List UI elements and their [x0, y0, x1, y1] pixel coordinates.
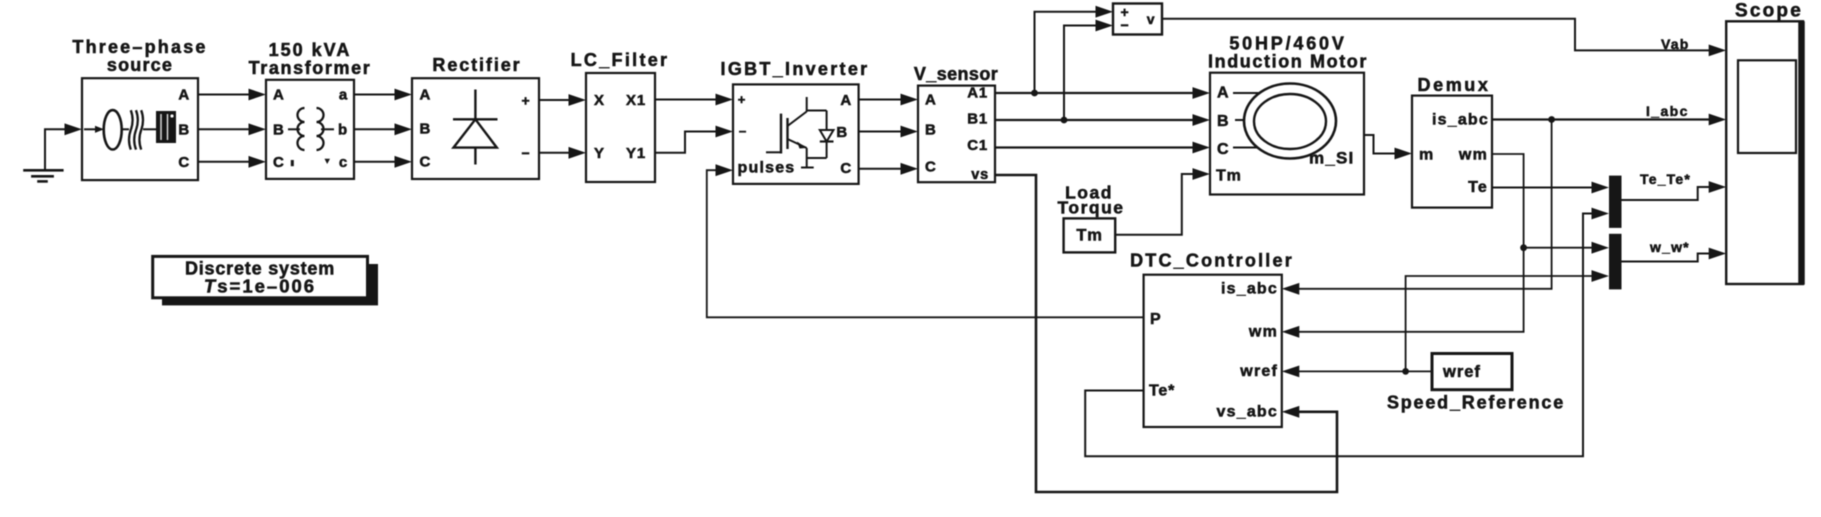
svg-text:Rectifier: Rectifier: [432, 55, 521, 75]
transformer winding dot mark: [291, 160, 294, 166]
port label transformer b: [338, 121, 348, 138]
svg-text:−: −: [522, 145, 531, 161]
wire B1 to motor B: [995, 114, 1210, 126]
motor lead A: [1233, 92, 1260, 94]
svg-text:w_w*: w_w*: [1649, 239, 1690, 255]
label voltmeter minus: [1121, 17, 1130, 33]
svg-text:c: c: [339, 154, 348, 171]
scope screen: [1738, 60, 1796, 153]
wire wm branch to mux w: [1524, 242, 1609, 254]
wire rectifier + to LC X: [539, 94, 586, 106]
svg-text:50HP/460V: 50HP/460V: [1229, 34, 1346, 54]
label Te_Te*: [1640, 171, 1691, 187]
svg-text:A: A: [178, 87, 190, 104]
port label transformer a: [339, 87, 348, 104]
port label inverter B: [836, 124, 848, 141]
wire Vab voltmeter to scope: [1162, 19, 1726, 57]
label Scope title: [1735, 1, 1803, 22]
port label V_sensor B: [925, 122, 937, 139]
svg-text:Induction Motor: Induction Motor: [1208, 52, 1368, 72]
wire transformer a to rectifier A: [354, 89, 412, 101]
svg-text:Three–phase: Three–phase: [72, 37, 207, 57]
port label DTC Te*: [1149, 383, 1175, 400]
wire vs to DTC vs_abc: [995, 175, 1337, 492]
svg-text:Torque: Torque: [1057, 198, 1124, 218]
wire rectifier - to LC Y: [539, 147, 586, 159]
svg-text:C: C: [178, 154, 190, 171]
svg-text:Vab: Vab: [1661, 36, 1690, 52]
label Speed_Reference: [1387, 393, 1565, 413]
svg-text:C: C: [840, 160, 852, 177]
wire LC X1 to inverter +: [655, 94, 733, 106]
transformer winding symbol: [288, 108, 334, 150]
source inductor coil: [129, 110, 143, 149]
svg-text:Te*: Te*: [1149, 383, 1175, 400]
port label motor m_SI: [1309, 149, 1354, 168]
wire LC Y1 to inverter -: [655, 126, 733, 153]
AC source ellipse: [104, 110, 122, 149]
port label rectifier plus: [522, 93, 531, 109]
svg-text:Demux: Demux: [1417, 75, 1490, 95]
diode symbol in rectifier: [453, 90, 498, 165]
wire mux2 to scope w_w*: [1622, 248, 1727, 262]
wire source B to transformer B: [198, 123, 266, 135]
svg-text:+: +: [522, 93, 531, 109]
svg-text:Te_Te*: Te_Te*: [1640, 171, 1691, 187]
port label V_sensor A: [925, 92, 937, 109]
port label demux Te: [1468, 179, 1488, 196]
svg-text:B1: B1: [967, 111, 988, 128]
node junction is_abc feedback: [1548, 116, 1555, 123]
svg-text:wref: wref: [1442, 363, 1481, 381]
wire A1 to motor A: [995, 87, 1210, 99]
label Discrete system: [185, 259, 335, 297]
port label DTC wref: [1239, 363, 1278, 380]
block 50HP/460V Induction Motor: [1210, 73, 1364, 195]
svg-text:A: A: [840, 92, 852, 109]
svg-text:X: X: [594, 92, 605, 109]
label voltmeter v: [1147, 11, 1156, 27]
wire source A to transformer A: [198, 89, 266, 101]
wire P to inverter pulses: [707, 164, 1144, 317]
svg-text:A: A: [1217, 85, 1229, 102]
wire inverter C to V_sensor C: [859, 163, 918, 175]
port label motor A: [1217, 85, 1229, 102]
annotation shadow: [162, 264, 378, 305]
svg-text:A1: A1: [967, 85, 988, 102]
svg-text:Scope: Scope: [1735, 1, 1803, 22]
svg-text:X1: X1: [626, 92, 646, 109]
source input port arrow inside: [84, 126, 104, 133]
svg-text:B: B: [1217, 113, 1229, 130]
block 150 kVA Transformer: [266, 80, 354, 179]
wire C1 to motor C: [995, 142, 1210, 154]
port label inverter A: [840, 92, 852, 109]
label Tm: [1076, 227, 1102, 245]
svg-text:C: C: [1217, 141, 1229, 158]
svg-text:source: source: [107, 55, 173, 75]
wire transformer c to rectifier C: [354, 156, 412, 168]
port label inverter minus: [739, 124, 747, 139]
block Scope: [1726, 21, 1803, 284]
port label source B: [178, 121, 190, 138]
svg-text:wref: wref: [1239, 363, 1278, 380]
block V_sensor: [918, 86, 995, 183]
svg-text:b: b: [338, 121, 348, 138]
wire wref branch to mux w*: [1406, 270, 1609, 371]
svg-text:−: −: [1121, 17, 1130, 33]
wire is_abc demux to scope: [1492, 114, 1726, 126]
mux w_w*: [1609, 234, 1622, 290]
port label DTC vs_abc: [1217, 404, 1278, 421]
svg-text:wm: wm: [1458, 147, 1488, 164]
wire mux1 to scope Te_Te*: [1622, 181, 1727, 200]
port label demux wm: [1458, 147, 1488, 164]
wire Te* to mux Te_Te*: [1085, 208, 1609, 457]
svg-text:Speed_Reference: Speed_Reference: [1387, 393, 1565, 413]
wire source C to transformer C: [198, 156, 266, 168]
port label DTC P: [1150, 311, 1161, 328]
port label rectifier C: [420, 153, 432, 170]
svg-text:P: P: [1150, 311, 1161, 328]
label Load Torque: [1057, 183, 1124, 218]
port label demux m: [1419, 147, 1434, 164]
svg-text:B: B: [420, 121, 432, 138]
svg-text:C: C: [273, 154, 285, 171]
wire ground to source input: [45, 123, 82, 170]
wire motor m to demux: [1364, 135, 1412, 159]
svg-text:is_abc: is_abc: [1221, 281, 1278, 298]
port label demux is_abc: [1432, 112, 1489, 129]
svg-text:Te: Te: [1468, 179, 1488, 196]
label Vab: [1661, 36, 1690, 52]
port label rectifier B: [420, 121, 432, 138]
wire inverter B to V_sensor B: [859, 126, 918, 138]
svg-text:Tm: Tm: [1216, 168, 1242, 185]
label wref: [1442, 363, 1481, 381]
wire B1 junction up to voltmeter -: [1064, 20, 1113, 120]
port label inverter plus: [738, 92, 746, 107]
svg-text:vs: vs: [971, 167, 989, 183]
svg-text:150 kVA: 150 kVA: [269, 40, 352, 60]
svg-text:m: m: [1419, 147, 1434, 164]
wire wm demux down: [1282, 154, 1524, 338]
port label transformer c: [339, 154, 348, 171]
svg-text:B: B: [273, 121, 285, 138]
svg-text:Y1: Y1: [626, 145, 646, 162]
label IGBT_Inverter title: [721, 59, 870, 79]
svg-text:IGBT_Inverter: IGBT_Inverter: [721, 59, 870, 79]
port label V_sensor A1: [967, 85, 988, 102]
block Tm load torque: [1064, 218, 1116, 252]
motor lead B: [1235, 119, 1245, 121]
block wref Speed_Reference: [1432, 354, 1512, 390]
port label LC Y: [594, 145, 605, 162]
wire source internal lead 1: [122, 128, 129, 130]
port label rectifier minus: [522, 145, 531, 161]
port label transformer C: [273, 154, 285, 171]
svg-text:v: v: [1147, 11, 1156, 27]
port label V_sensor B1: [967, 111, 988, 128]
IGBT symbol with anti-parallel diode: [766, 97, 834, 168]
port label transformer B: [273, 121, 285, 138]
label Three-phase source title: [72, 37, 207, 75]
ground: [23, 170, 63, 181]
mux Te_Te*: [1609, 176, 1622, 228]
block LC_Filter: [586, 73, 655, 182]
port label V_sensor C: [925, 159, 937, 176]
svg-text:Y: Y: [594, 145, 605, 162]
svg-text:A: A: [925, 92, 937, 109]
svg-text:+: +: [738, 92, 746, 107]
svg-text:a: a: [339, 87, 348, 104]
source impedance box: [156, 111, 176, 143]
svg-text:C: C: [925, 159, 937, 176]
port label motor Tm: [1216, 168, 1242, 185]
label voltmeter plus: [1121, 4, 1130, 20]
svg-text:C1: C1: [967, 137, 988, 154]
node junction B1 voltmeter: [1061, 117, 1068, 124]
port label source C: [178, 154, 190, 171]
svg-text:pulses: pulses: [738, 160, 796, 177]
label V_sensor title: [914, 64, 998, 84]
svg-text:C: C: [420, 153, 432, 170]
port label LC X1: [626, 92, 646, 109]
port label V_sensor C1: [967, 137, 988, 154]
port label transformer A: [273, 87, 285, 104]
label DTC_Controller title: [1130, 251, 1294, 271]
svg-text:B: B: [178, 121, 190, 138]
label LC_Filter title: [571, 50, 670, 70]
label I_abc: [1646, 103, 1689, 119]
block DTC_Controller: [1144, 275, 1282, 427]
wire A1 junction up to voltmeter +: [1035, 6, 1114, 93]
svg-text:Transformer: Transformer: [249, 58, 372, 78]
svg-text:DTC_Controller: DTC_Controller: [1130, 251, 1294, 271]
svg-text:A: A: [273, 87, 285, 104]
port label motor B: [1217, 113, 1229, 130]
svg-text:I_abc: I_abc: [1646, 103, 1689, 119]
port label source A: [178, 87, 190, 104]
wire source internal lead 2: [143, 128, 156, 130]
label Demux title: [1417, 75, 1490, 95]
label rectifier title: [432, 55, 521, 75]
block Demux: [1412, 96, 1492, 208]
svg-text:B: B: [836, 124, 848, 141]
motor rotor inner circle: [1254, 94, 1326, 149]
motor stator outer circle: [1244, 84, 1336, 159]
wire transformer b to rectifier B: [354, 123, 412, 135]
label w_w*: [1649, 239, 1690, 255]
wire wref to DTC wref: [1282, 366, 1432, 378]
port label V_sensor vs: [971, 167, 989, 183]
block Rectifier: [412, 78, 539, 179]
svg-text:A: A: [420, 87, 432, 104]
port label inverter pulses: [738, 160, 796, 177]
svg-text:Tm: Tm: [1076, 227, 1102, 245]
wire Tm to motor Tm: [1115, 168, 1210, 235]
port label inverter C: [840, 160, 852, 177]
svg-text:is_abc: is_abc: [1432, 112, 1489, 129]
wire Te demux to mux: [1492, 182, 1609, 194]
port label rectifier A: [420, 87, 432, 104]
wire inverter A to V_sensor A: [859, 94, 918, 106]
block IGBT_Inverter: [733, 84, 859, 183]
svg-text:vs_abc: vs_abc: [1217, 404, 1278, 421]
node junction wref to mux: [1402, 368, 1409, 375]
block Three-phase source: [82, 78, 198, 180]
svg-text:m_SI: m_SI: [1309, 149, 1354, 168]
motor lead C: [1233, 147, 1258, 149]
svg-text:Ts=1e–006: Ts=1e–006: [204, 276, 316, 297]
port label LC X: [594, 92, 605, 109]
svg-text:LC_Filter: LC_Filter: [571, 50, 670, 70]
port label DTC wm: [1248, 324, 1278, 341]
transformer c polarity mark: [325, 159, 331, 164]
label motor title: [1208, 34, 1368, 72]
svg-text:wm: wm: [1248, 324, 1278, 341]
wire is_abc feedback to DTC: [1282, 120, 1552, 295]
annotation Discrete system box: [153, 256, 368, 297]
svg-text:B: B: [925, 122, 937, 139]
label transformer title: [249, 40, 372, 78]
block voltage measurement V: [1113, 4, 1162, 35]
port label DTC is_abc: [1221, 281, 1278, 298]
node junction A1 voltmeter: [1031, 90, 1038, 97]
port label LC Y1: [626, 145, 646, 162]
node junction wm to mux: [1520, 244, 1527, 251]
svg-text:−: −: [739, 124, 747, 139]
svg-text:V_sensor: V_sensor: [914, 64, 998, 84]
port label motor C: [1217, 141, 1229, 158]
